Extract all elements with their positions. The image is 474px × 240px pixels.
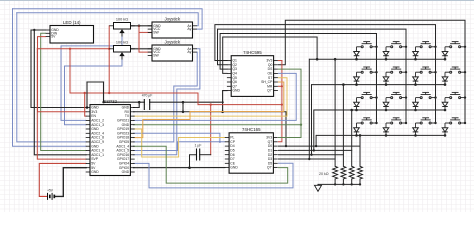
wire battery - to ESP32 GND <box>54 168 86 197</box>
wire joystick2 Ay zigzag to ESP32 <box>134 52 198 142</box>
potentiometer RB 100k <box>109 41 135 60</box>
junction pot chain mid rail <box>108 92 110 94</box>
junction GND pin1 <box>86 106 89 109</box>
junction column 4 row 2 <box>464 71 466 73</box>
wire ESP32 GND hook to rail <box>134 102 140 107</box>
wire 595 VCC/MR to 165 <box>279 61 282 142</box>
wire pot2 wiper to ESP32 <box>65 60 123 125</box>
wire 5V jog down <box>197 93 199 105</box>
pushbutton S5 <box>357 67 377 73</box>
wire resistor common rail <box>318 183 360 185</box>
junction diode D3 row <box>414 58 417 61</box>
junction MR <box>281 85 283 87</box>
junction diode D4 row <box>444 58 447 61</box>
pushbutton S15 <box>416 118 436 124</box>
junction 5V rail corner <box>69 48 71 50</box>
junction diode D5 row <box>355 83 358 86</box>
diode D6 <box>383 72 389 84</box>
wire GND rail bottom <box>134 167 225 169</box>
junction PL <box>219 141 221 143</box>
junction row3 tap <box>313 149 315 151</box>
wire 5V to 595 MR <box>198 104 282 106</box>
wire row4 left vertical <box>315 135 317 146</box>
junction column 4 row 3 <box>464 96 466 98</box>
wire 595 SH_CP to ESP32 <box>134 82 284 138</box>
wire resistor R4 top lead to row4 <box>359 135 361 166</box>
wire resistor R2 top lead to row2 <box>342 85 344 167</box>
diode D3 <box>413 47 419 59</box>
shift register U1 74HC595 <box>227 50 278 96</box>
svg-text:GND: GND <box>232 89 240 93</box>
wire 5V mid rail <box>70 92 198 94</box>
junction column 2 row 1 <box>405 46 407 48</box>
wire row3 left vertical <box>313 110 315 150</box>
resistor R4 20k body <box>358 166 363 179</box>
capacitor C1 470uF <box>142 94 153 111</box>
wire 5V mid to ESP32 <box>85 93 86 116</box>
wire 595 MR stub <box>279 85 282 87</box>
shift register U2 74HC165 <box>225 127 278 173</box>
junction column 1 row 2 <box>375 71 377 73</box>
junction column 2 row 3 <box>405 96 407 98</box>
wire matrix column 4 vertical <box>464 20 466 123</box>
junction pot2 left 5V <box>108 48 110 50</box>
junction resistor rail <box>334 183 336 185</box>
wire 74HC595 GND down <box>223 91 227 112</box>
wire joystick1 SW <box>139 31 152 33</box>
pushbutton S11 <box>416 92 436 98</box>
junction column 2 row 4 <box>405 122 407 124</box>
junction DS <box>300 124 302 126</box>
junction joystick feed <box>138 25 141 28</box>
wire ESP32 to 165 bottom blue <box>134 163 294 188</box>
junction row1 tap <box>308 158 310 160</box>
microcontroller U3 ESP32 <box>86 99 135 176</box>
wire resistor R3 top lead to row3 <box>351 110 353 166</box>
junction diode D1 row <box>355 58 358 61</box>
wire ESP32 to 165 PL riser B <box>134 133 220 142</box>
svg-text:20 kΩ: 20 kΩ <box>319 172 329 176</box>
wire resistor bottom lead <box>359 179 361 184</box>
pushbutton S12 <box>445 92 465 98</box>
svg-text:1 µF: 1 µF <box>195 144 202 148</box>
junction diode D11 row <box>414 109 417 112</box>
pushbutton S1 <box>357 42 377 48</box>
wire matrix row 3 line <box>314 109 445 111</box>
wire pot1 wiper to ESP32 <box>61 37 122 121</box>
junction diode D15 row <box>414 134 417 137</box>
wire 5V rail vertical A <box>37 49 86 159</box>
diode D12 <box>442 98 448 110</box>
svg-text:+5V: +5V <box>47 189 54 193</box>
diode D1 <box>354 47 360 59</box>
wire 595 Q4 to row1 <box>223 37 317 73</box>
junction resistor R3 row3 <box>350 109 353 112</box>
junction diode D16 row <box>444 134 447 137</box>
wire 595 Q1 to column3 bus <box>215 25 436 61</box>
diode D10 <box>383 98 389 110</box>
wire LED GND to ESP32 GND <box>31 30 86 108</box>
wire 165 pin to row1 net <box>279 158 336 160</box>
wire LED 5V <box>38 37 87 112</box>
junction row4 tap <box>315 145 317 147</box>
svg-text:74HC595: 74HC595 <box>243 50 262 55</box>
wire matrix row 2 line <box>312 84 446 86</box>
wire GND link to ESP32 GND <box>86 82 88 108</box>
diode D13 <box>354 123 360 135</box>
wire GND spur right <box>134 112 287 146</box>
junction LED GND split <box>33 29 35 31</box>
junction column 4 row 1 <box>464 46 466 48</box>
junction diode D13 row <box>355 134 358 137</box>
wire ESP32 to 165 CP <box>134 129 225 157</box>
junction diode D14 row <box>385 134 388 137</box>
wire 595 DS chain <box>279 69 302 137</box>
wire LED GND branch <box>34 30 86 155</box>
svg-text:5V: 5V <box>51 35 56 39</box>
wire 165 pin to row4 net <box>279 145 361 147</box>
ground arrow symbol <box>315 184 322 191</box>
junction resistor rail <box>359 183 361 185</box>
svg-text:Q7’: Q7’ <box>267 89 273 93</box>
wire 5V rail to pots <box>37 48 109 50</box>
wire pot1 to joystick1 GND <box>131 25 153 27</box>
svg-text:Ay: Ay <box>187 27 191 31</box>
joystick J1 <box>148 16 197 38</box>
wire red riser to joystick2 VCC <box>139 26 152 52</box>
svg-text:LED (14): LED (14) <box>63 20 81 25</box>
junction diode D12 row <box>444 109 447 112</box>
wire matrix column 2 vertical <box>405 29 407 123</box>
svg-text:GND: GND <box>122 170 130 174</box>
wire row1 left vertical <box>308 59 310 159</box>
junction GND rail left <box>102 101 104 103</box>
battery BT1 +5V <box>39 189 54 200</box>
pushbutton S4 <box>445 42 465 48</box>
capacitor C2 1uF <box>195 144 202 161</box>
resistor R3 20k body <box>349 166 354 179</box>
pushbutton S6 <box>386 67 406 73</box>
wire ESP32 to 165 Q7 bottom green <box>134 146 288 183</box>
junction GND rail <box>182 101 185 104</box>
resistor R1 20k body <box>333 166 338 179</box>
svg-text:470 µF: 470 µF <box>142 94 153 98</box>
junction diode D10 row <box>385 109 388 112</box>
junction column 3 row 2 <box>434 71 436 73</box>
junction GND hook <box>138 101 141 104</box>
wire GND rail bridge <box>182 102 184 112</box>
LED strip U-LED <box>46 20 94 43</box>
svg-text:Ay: Ay <box>187 50 191 54</box>
pushbutton S2 <box>386 42 406 48</box>
pushbutton S7 <box>416 67 436 73</box>
junction diode D9 row <box>355 109 358 112</box>
wire 595 VCC stub <box>279 60 282 62</box>
wire resistor bottom lead <box>351 179 353 184</box>
resistor R2 20k body <box>341 166 346 179</box>
junction Q4 row1 <box>316 58 319 61</box>
junction resistor rail <box>351 183 353 185</box>
junction diode D8 row <box>444 83 447 86</box>
svg-text:Q7’: Q7’ <box>267 166 273 170</box>
junction 595 GND <box>221 111 224 114</box>
wire GND rail to cap470 <box>104 101 145 103</box>
wire 595 ST_CP to ESP32 <box>134 78 288 116</box>
diode D14 <box>383 123 389 135</box>
junction resistor R2 row2 <box>342 83 345 86</box>
diode D8 <box>442 72 448 84</box>
wire 595 Q0 riser to column4 bus <box>279 20 466 65</box>
wire 595 OE to ESP32 <box>134 73 297 120</box>
junction resistor R4 row4 <box>359 134 362 137</box>
diode D4 <box>442 47 448 59</box>
wire GND link upper <box>103 82 105 102</box>
pushbutton S9 <box>357 92 377 98</box>
junction GND spur <box>285 145 287 147</box>
wire GND rail after cap470 <box>150 101 224 103</box>
junction column 1 row 4 <box>375 122 377 124</box>
wire row2 left vertical <box>311 85 313 155</box>
wire 165 pin to row3 net <box>279 149 352 151</box>
junction resistor rail <box>342 183 344 185</box>
pushbutton S3 <box>416 42 436 48</box>
junction column 4 row 4 <box>464 122 466 124</box>
junction column 3 row 3 <box>434 96 436 98</box>
wire joystick2 Ax zigzag to ESP32 <box>134 49 200 155</box>
wire 5V drop to cap1u <box>210 105 212 155</box>
diode D11 <box>413 98 419 110</box>
pushbutton S16 <box>445 118 465 124</box>
junction MR rail <box>281 104 283 106</box>
diode D7 <box>413 72 419 84</box>
wire cap1u left lead <box>190 155 197 168</box>
svg-text:100 kΩ: 100 kΩ <box>116 41 128 45</box>
wire 595 Q3 to column1 bus <box>220 34 376 70</box>
wire matrix row 4 line <box>316 134 445 136</box>
junction column 3 row 1 <box>434 46 436 48</box>
pushbutton S8 <box>445 67 465 73</box>
junction diode D2 row <box>385 58 388 61</box>
junction 5V mid <box>84 92 86 94</box>
junction column 1 row 1 <box>375 46 377 48</box>
potentiometer RA 100k <box>109 18 135 37</box>
svg-text:Joystick: Joystick <box>164 39 180 44</box>
wire ESP32 to 165 PL <box>134 142 225 151</box>
wire resistor bottom lead <box>342 179 344 184</box>
wire LED DIN to ESP32 GPIO <box>41 33 86 150</box>
wire 595 Q2 to column2 bus <box>218 29 407 65</box>
junction column 3 row 4 <box>434 122 436 124</box>
diode D9 <box>354 98 360 110</box>
wire 5V rail elbow down <box>69 49 71 93</box>
svg-text:GND: GND <box>230 166 238 170</box>
wire pot2 to joystick2 GND <box>131 48 153 50</box>
junction column 1 row 3 <box>375 96 377 98</box>
junction resistor R1 row1 <box>334 58 337 61</box>
wire battery + to ESP32 5V <box>39 163 86 196</box>
junction diode D6 row <box>385 83 388 86</box>
pushbutton S14 <box>386 118 406 124</box>
wire matrix column 3 vertical <box>435 25 437 123</box>
wire blue line L3 joystick1 Ax <box>17 13 198 26</box>
junction row2 tap <box>310 154 312 156</box>
diode D2 <box>383 47 389 59</box>
wire pot left 5V chain <box>108 26 110 93</box>
diode D15 <box>413 123 419 135</box>
svg-text:GND: GND <box>91 170 99 174</box>
wire GND link top <box>87 81 104 83</box>
svg-text:74HC165: 74HC165 <box>242 127 261 132</box>
junction GND spur left <box>182 111 185 114</box>
svg-text:Joystick: Joystick <box>164 16 180 21</box>
wire blue line L2 joystick1 Ay <box>13 9 203 29</box>
svg-text:SW: SW <box>153 31 159 35</box>
diode D16 <box>442 123 448 135</box>
svg-text:100 kΩ: 100 kΩ <box>116 18 128 22</box>
wire matrix column 1 vertical <box>376 34 378 124</box>
wire matrix row 1 line <box>309 58 445 60</box>
junction red mid <box>210 103 212 105</box>
svg-text:ESP32: ESP32 <box>103 99 117 104</box>
wire resistor bottom lead <box>334 179 336 184</box>
wire 165 pin to row2 net <box>279 154 344 156</box>
wire blue L2 to ESP32 <box>13 9 87 146</box>
diode D5 <box>354 72 360 84</box>
junction column 2 row 2 <box>405 71 407 73</box>
junction cap1u GND <box>188 166 191 169</box>
junction diode D7 row <box>414 83 417 86</box>
wire blue L3 to ESP32 <box>17 13 86 142</box>
pushbutton S10 <box>386 92 406 98</box>
wire resistor R1 top lead to row1 <box>334 59 336 166</box>
joystick J2 <box>148 39 197 61</box>
wire ESP32 DS data <box>134 124 302 126</box>
svg-text:SW: SW <box>153 54 159 58</box>
wire cap1u right lead <box>200 154 211 156</box>
pushbutton S13 <box>357 118 377 124</box>
